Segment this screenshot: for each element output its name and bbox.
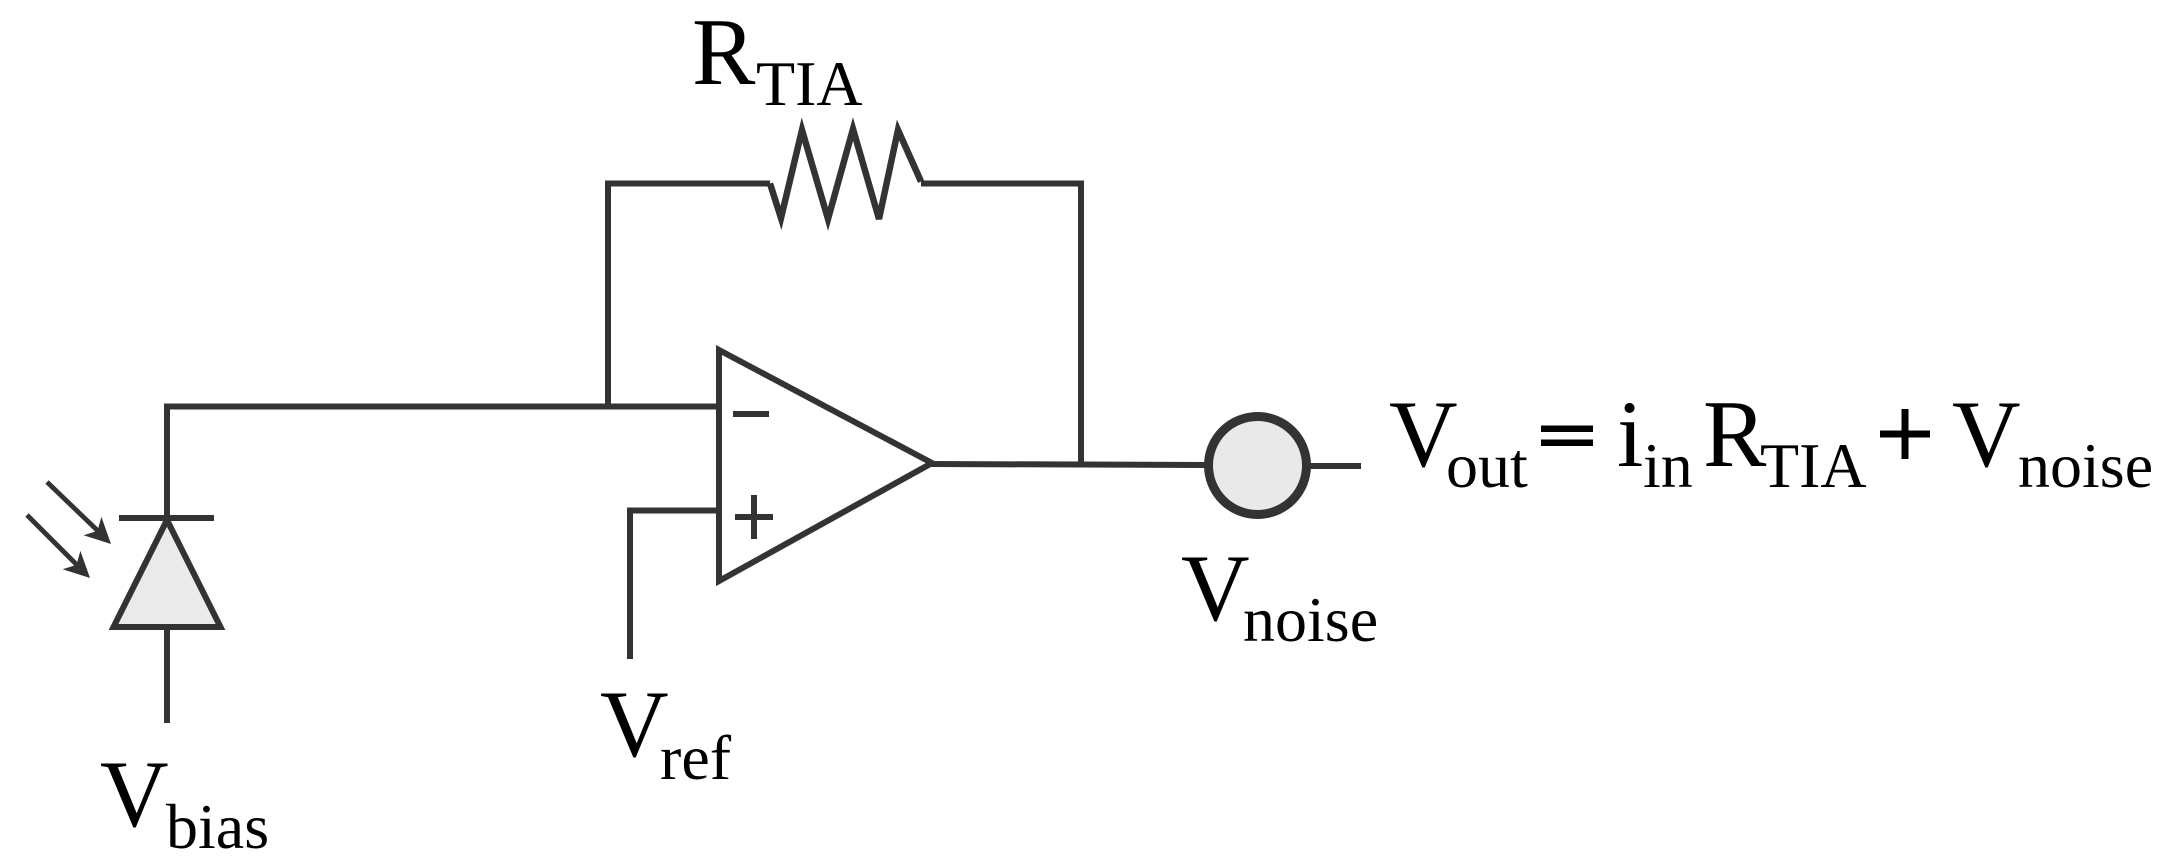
svg-text:bias: bias xyxy=(166,791,269,862)
svg-text:TIA: TIA xyxy=(756,48,863,119)
svg-text:out: out xyxy=(1446,430,1528,501)
svg-text:R: R xyxy=(1703,381,1767,487)
svg-text:R: R xyxy=(692,0,756,105)
svg-text:noise: noise xyxy=(2018,430,2153,501)
svg-text:V: V xyxy=(1952,381,2021,487)
svg-text:i: i xyxy=(1617,381,1643,487)
svg-text:V: V xyxy=(600,671,669,777)
svg-text:V: V xyxy=(100,741,169,847)
svg-text:noise: noise xyxy=(1243,584,1378,655)
svg-text:V: V xyxy=(1181,535,1250,641)
svg-text:TIA: TIA xyxy=(1760,430,1867,501)
svg-text:ref: ref xyxy=(660,722,732,793)
svg-text:in: in xyxy=(1643,430,1693,501)
